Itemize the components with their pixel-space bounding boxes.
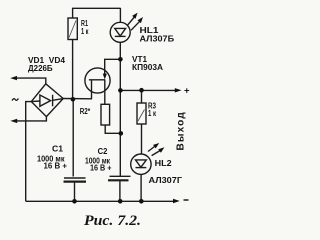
svg-text:16 В +: 16 В + — [44, 161, 68, 170]
svg-text:+: + — [184, 86, 190, 97]
svg-text:1 к: 1 к — [148, 109, 157, 118]
svg-text:Выход: Выход — [175, 111, 186, 150]
svg-text:АЛ307Б: АЛ307Б — [140, 34, 175, 43]
svg-text:АЛ307Г: АЛ307Г — [149, 176, 183, 185]
svg-text:С1: С1 — [52, 144, 64, 153]
svg-text:1 к: 1 к — [81, 27, 89, 36]
svg-text:С2: С2 — [98, 147, 108, 156]
svg-text:R2*: R2* — [80, 107, 91, 116]
svg-text:КП903А: КП903А — [132, 63, 163, 72]
svg-text:HL2: HL2 — [155, 159, 173, 168]
svg-text:16 В +: 16 В + — [90, 163, 112, 172]
svg-text:Д226Б: Д226Б — [28, 64, 53, 73]
svg-text:Рис. 7.2.: Рис. 7.2. — [84, 213, 141, 229]
